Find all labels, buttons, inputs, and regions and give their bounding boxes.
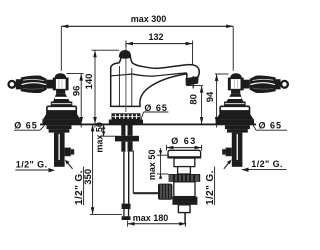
- svg-text:max 180: max 180: [133, 213, 169, 223]
- label Ø 65 left handle: [14, 121, 45, 131]
- pop-up rod horizontal: [133, 192, 158, 194]
- spout centerline: [125, 44, 127, 112]
- spout base fluted band: [112, 113, 141, 120]
- dimension 132: [126, 32, 193, 89]
- supply pipe: [123, 152, 124, 204]
- svg-text:max 50: max 50: [147, 150, 157, 181]
- pop-up rod vertical: [132, 151, 134, 194]
- drain pop-up knob: [158, 184, 172, 200]
- spout inner surface line: [111, 73, 187, 76]
- supply pipe end nut: [122, 216, 131, 220]
- dimension max 180: [128, 213, 187, 227]
- svg-text:132: 132: [148, 32, 163, 42]
- dimension max 300: [61, 14, 233, 71]
- spout base flange: [109, 120, 143, 124]
- label Ø 65 spout base: [141, 103, 168, 120]
- spout body outline: [111, 58, 200, 107]
- spout column inner shading lines: [118, 66, 120, 106]
- svg-text:max 50: max 50: [94, 122, 104, 153]
- svg-text:max 300: max 300: [131, 14, 167, 24]
- dimension 350: [83, 124, 122, 214]
- deck line: [40, 124, 256, 126]
- label 1/2" G. right vertical: [205, 167, 216, 206]
- left valve below deck: [47, 125, 75, 169]
- right valve below deck (mirrored): [222, 125, 250, 169]
- drain lower band: [172, 197, 197, 205]
- label Ø 65 right handle: [253, 121, 287, 131]
- spout aerator outlet: [186, 76, 199, 86]
- dimension 140: [84, 50, 119, 127]
- drain neck lower: [178, 167, 191, 174]
- svg-text:1/2" G.: 1/2" G.: [251, 159, 283, 169]
- svg-text:Ø 65: Ø 65: [259, 121, 283, 131]
- supply pipe tube end: [123, 209, 124, 216]
- spout finial knob: [119, 50, 132, 59]
- dimension 96: [67, 74, 84, 128]
- label 1/2" G. left vertical: [74, 167, 85, 206]
- drain knurled nut: [169, 174, 201, 182]
- spout mounting nut: [115, 136, 139, 142]
- svg-text:80: 80: [188, 94, 199, 105]
- supply pipe nut: [122, 204, 131, 209]
- dimension Ø 63 (drain cap): [166, 136, 201, 150]
- dimension max 50 (deck, at spout): [94, 122, 115, 153]
- svg-text:Ø 65: Ø 65: [144, 103, 168, 113]
- svg-text:Ø 63: Ø 63: [171, 136, 197, 146]
- label 1/2" G. right horizontal: [242, 159, 287, 172]
- svg-text:1/2" G.: 1/2" G.: [16, 160, 48, 170]
- svg-text:94: 94: [205, 91, 216, 102]
- drain neck upper: [174, 158, 195, 167]
- drain body: [174, 182, 195, 197]
- svg-text:Ø 65: Ø 65: [14, 121, 38, 131]
- drain tail extension line to max180: [184, 213, 186, 224]
- svg-text:96: 96: [71, 86, 82, 97]
- left handle: [9, 73, 81, 124]
- drain tailpiece: [178, 205, 190, 213]
- drain cap: [168, 150, 201, 158]
- label 1/2" G. left horizontal: [15, 160, 55, 173]
- right handle (mirrored): [216, 73, 288, 124]
- svg-text:140: 140: [84, 74, 95, 90]
- dimension 80 (spout outlet height): [187, 86, 203, 124]
- dimension 94 (right handle): [205, 74, 229, 128]
- spout lower tube: [121, 141, 132, 151]
- dimension max 50 (drain): [147, 148, 169, 180]
- spout shank below deck: [121, 125, 132, 136]
